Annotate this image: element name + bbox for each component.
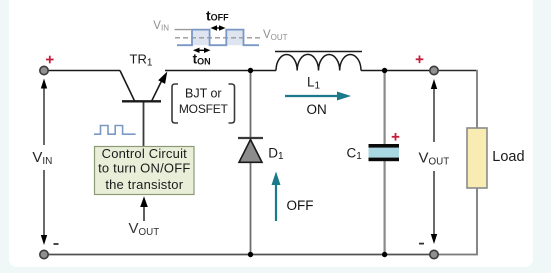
node input top terminal bbox=[40, 66, 48, 74]
wire bottom rail bbox=[44, 254, 434, 256]
capacitor C1 bbox=[369, 144, 400, 161]
svg-text:OFF: OFF bbox=[287, 198, 314, 213]
wire load bottom to bottom rail bbox=[434, 188, 477, 255]
inductor L1 bbox=[275, 52, 362, 71]
junction dot diode top bbox=[248, 68, 253, 73]
svg-text:the transistor: the transistor bbox=[105, 177, 183, 192]
svg-text:ON: ON bbox=[307, 102, 327, 117]
wire capacitor branch bbox=[384, 71, 386, 255]
svg-text:MOSFET: MOSFET bbox=[179, 102, 229, 116]
tOFF double arrow bbox=[213, 27, 223, 29]
load resistor bbox=[467, 128, 487, 188]
node output bottom terminal bbox=[430, 250, 438, 258]
svg-text:to turn ON/OFF: to turn ON/OFF bbox=[98, 161, 190, 176]
Vout measurement arrow bbox=[431, 79, 437, 244]
node output minus bbox=[419, 243, 424, 245]
waveform pulse fill 2 bbox=[226, 30, 243, 46]
svg-text:BJT or: BJT or bbox=[185, 87, 222, 101]
control circuit box bbox=[95, 147, 195, 195]
OFF current arrow bbox=[272, 172, 281, 222]
wire transistor base lead bbox=[143, 102, 145, 147]
ON current arrow bbox=[285, 92, 351, 101]
diode D1 bbox=[238, 138, 263, 162]
BJT or MOSFET bracket left bbox=[172, 84, 178, 123]
wire top rail middle (emitter to inductor) bbox=[165, 70, 276, 72]
tON double arrow bbox=[196, 49, 208, 51]
transistor Q1 TR1 bbox=[120, 71, 167, 102]
node input minus bbox=[54, 243, 59, 245]
junction dot capacitor top bbox=[382, 68, 387, 73]
control input square wave bbox=[94, 126, 136, 135]
node output plus bbox=[416, 56, 424, 64]
BJT or MOSFET bracket right bbox=[229, 84, 235, 123]
Vin measurement arrow bbox=[41, 79, 47, 246]
Vout feedback arrow into control box bbox=[140, 196, 148, 221]
node output top terminal bbox=[430, 66, 438, 74]
waveform pulse fill 1 bbox=[192, 30, 210, 46]
wire top rail right (inductor to output node) bbox=[361, 70, 434, 72]
waveform square wave bbox=[177, 30, 259, 46]
wire diode branch bbox=[250, 71, 252, 255]
wire top rail left (node to transistor collector) bbox=[44, 70, 120, 72]
node input plus bbox=[46, 56, 54, 64]
waveform Vin level line bbox=[175, 29, 192, 31]
node input bottom terminal bbox=[40, 250, 48, 258]
svg-text:Control Circuit: Control Circuit bbox=[102, 146, 188, 161]
capacitor plus bbox=[392, 133, 400, 141]
waveform Vout dashed line bbox=[175, 37, 261, 39]
junction dot capacitor bottom bbox=[382, 252, 387, 257]
wire output node to load top bbox=[434, 70, 476, 72]
junction dot diode bottom bbox=[248, 252, 253, 257]
svg-text:Load: Load bbox=[492, 149, 524, 165]
